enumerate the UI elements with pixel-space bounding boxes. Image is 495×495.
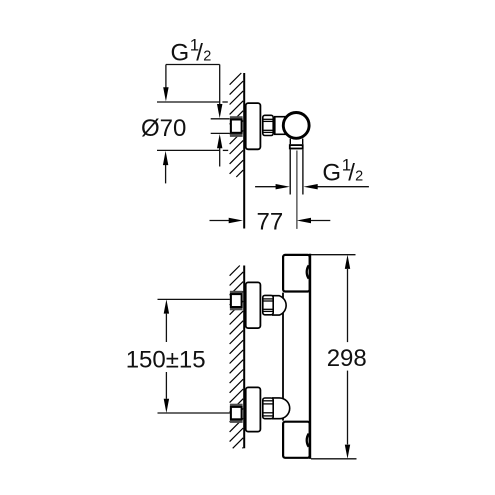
upper union nut xyxy=(263,295,273,314)
wall face line (front view) xyxy=(243,266,245,449)
shower outlet pipe xyxy=(289,149,291,194)
svg-text:G: G xyxy=(171,40,190,67)
wall hatching (front view) xyxy=(230,266,244,449)
G 1/2 connection top arrow xyxy=(219,65,221,105)
outlet pipe centerline xyxy=(296,151,298,229)
svg-text:150±15: 150±15 xyxy=(126,346,206,373)
298 dim bottom arrow xyxy=(347,371,349,445)
thermostat bar right edge xyxy=(309,254,311,459)
escutcheon flange (side view) xyxy=(246,103,261,149)
lower supply pipe in wall (grey) xyxy=(230,404,243,423)
valve body (side view) xyxy=(275,117,294,135)
G 1/2 connection bottom arrow xyxy=(219,148,221,167)
supply pipe in wall (grey, side view) xyxy=(230,116,243,137)
lower union ball joint xyxy=(273,398,290,419)
dimension label G 1/2 (right) xyxy=(322,155,363,186)
svg-text:G: G xyxy=(322,160,341,187)
handle circle (side view) xyxy=(283,113,309,139)
supply nipple square (side view) xyxy=(231,120,242,133)
svg-text:Ø70: Ø70 xyxy=(141,115,186,142)
union nut (side view) xyxy=(263,115,273,135)
150 dim lower extension line xyxy=(158,412,230,414)
svg-text:2: 2 xyxy=(355,169,363,185)
thermostat bar top cap xyxy=(283,255,310,292)
wall face line (side view) xyxy=(243,73,245,229)
leader line for G 1/2 top xyxy=(166,64,220,66)
G 1/2 pipe dim right arrow xyxy=(317,186,369,188)
dia-70 bottom arrow xyxy=(165,165,167,184)
77 dim left arrow xyxy=(210,220,230,222)
wall hatching (side view) xyxy=(230,73,244,177)
298 dim bottom extension line xyxy=(311,458,357,460)
collar on outlet xyxy=(290,145,303,148)
upper supply nipple square xyxy=(231,294,242,307)
top valve crescent xyxy=(307,265,309,278)
thermostat bar bottom cap xyxy=(283,422,310,458)
150 dim lower arrow xyxy=(165,372,167,399)
extension line flange top xyxy=(157,101,220,103)
lower supply nipple square xyxy=(231,407,242,419)
dia-70 top arrow xyxy=(165,65,167,90)
298 dim top arrow xyxy=(345,255,350,269)
upper supply pipe in wall (grey) xyxy=(230,291,243,311)
G 1/2 pipe dim left arrow xyxy=(255,186,277,188)
extension line flange bottom xyxy=(157,149,220,151)
bottom valve crescent xyxy=(307,434,309,447)
svg-text:2: 2 xyxy=(203,49,211,65)
lower union nut xyxy=(263,398,273,419)
svg-text:77: 77 xyxy=(257,208,284,235)
lower escutcheon flange (front view) xyxy=(246,387,261,431)
svg-text:298: 298 xyxy=(327,345,367,372)
77 dim right arrow xyxy=(310,220,330,222)
thermostat bar tube left edge xyxy=(282,293,284,421)
extension lines G 1/2 wall connection xyxy=(211,118,230,120)
298 dim top extension line xyxy=(311,254,356,256)
150 dim upper extension line xyxy=(158,298,230,300)
upper union ball joint xyxy=(273,296,286,315)
neck below handle xyxy=(289,139,291,145)
150 dim upper arrow xyxy=(164,299,169,313)
upper escutcheon flange (front view) xyxy=(246,282,261,328)
